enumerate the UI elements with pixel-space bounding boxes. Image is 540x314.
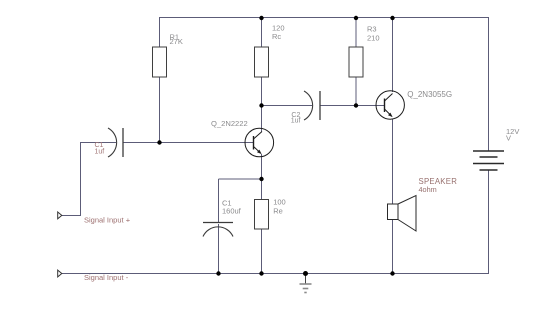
node top rail collector branch dot [390, 16, 394, 20]
connector signal input minus [58, 270, 129, 282]
node Q1 emitter dot [259, 177, 263, 181]
svg-text:27K: 27K [170, 37, 183, 46]
connector signal input plus [58, 212, 131, 225]
svg-text:R3: R3 [367, 25, 377, 34]
svg-text:Signal Input +: Signal Input + [84, 216, 131, 225]
svg-text:4ohm: 4ohm [419, 185, 437, 194]
wire R1 bottom lead to base node [159, 77, 161, 143]
resistor R1 27K [153, 33, 183, 78]
svg-text:Rc: Rc [272, 32, 281, 41]
svg-text:160uf: 160uf [222, 206, 242, 215]
wire speaker bottom lead [392, 220, 394, 274]
battery 12V [473, 127, 519, 170]
node speaker bottom dot [390, 271, 394, 275]
wire C2 to Q2 base [320, 105, 385, 107]
node base junction dot [157, 140, 161, 144]
svg-text:Q_2N3055G: Q_2N3055G [407, 90, 452, 99]
node top rail Rc dot [259, 16, 263, 20]
wire bottom rail from signal input minus to battery bottom [62, 171, 489, 274]
wire Q2 collector branch from top rail [392, 18, 394, 93]
wire Q1 emitter lead down [261, 154, 263, 200]
svg-text:Signal Input -: Signal Input - [84, 273, 129, 282]
wire top rail from R1 top across to battery top [160, 18, 489, 151]
svg-text:Q_2N2222: Q_2N2222 [211, 119, 248, 128]
wire collector node to C2 [262, 105, 313, 107]
node Re bottom dot [259, 271, 263, 275]
wire Rc bottom lead [261, 77, 263, 106]
transistor Q2 Q_2N3055G [376, 90, 452, 119]
capacitor C2 1uf [291, 91, 320, 125]
wire R3 top lead [355, 18, 357, 48]
node R3 bottom dot [354, 103, 358, 107]
resistor Re 100 [255, 198, 286, 229]
capacitor C1 1uf input [95, 128, 124, 157]
svg-text:210: 210 [367, 34, 380, 43]
wire Q1 collector lead [261, 106, 263, 132]
wire Rc top lead [261, 18, 263, 48]
wire Re bottom lead [261, 229, 263, 274]
resistor R3 210 [349, 25, 380, 78]
svg-text:1uf: 1uf [291, 118, 301, 125]
wire C1 to Q1 base [123, 142, 254, 144]
ground [300, 274, 312, 293]
wire 160uf cap top lead [218, 179, 220, 222]
wire R3 bottom lead [355, 77, 357, 106]
transistor Q1 Q_2N2222 [211, 119, 274, 157]
svg-text:Re: Re [273, 206, 283, 215]
wire signal input plus to C1 [62, 143, 116, 216]
wire emitter node to C1 160uf branch [219, 178, 262, 180]
svg-text:1uf: 1uf [95, 149, 105, 156]
node top rail R3 dot [354, 16, 358, 20]
svg-text:V: V [506, 134, 511, 143]
resistor Rc 120 [255, 24, 285, 78]
capacitor C1 160uf electrolytic [203, 198, 242, 236]
node ground dot [303, 271, 308, 276]
node 160uf bottom dot [216, 271, 220, 275]
node Q1 collector dot [259, 103, 263, 107]
wire Q2 emitter to speaker [392, 120, 394, 205]
speaker SPEAKER 4ohm [388, 177, 458, 231]
wire 160uf cap bottom lead [218, 224, 220, 274]
